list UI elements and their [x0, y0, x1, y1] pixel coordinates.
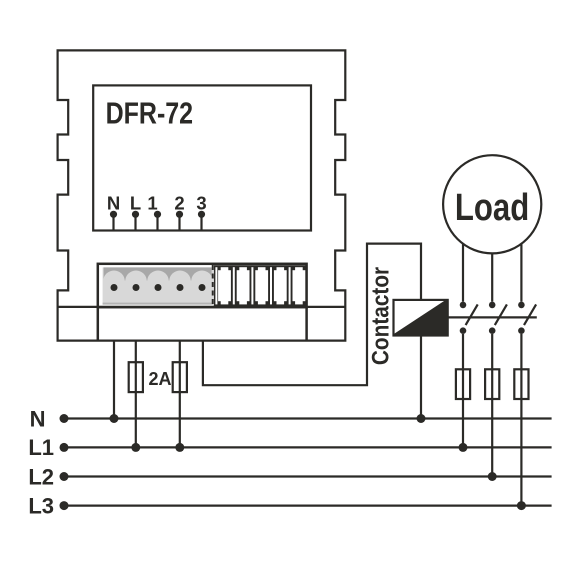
fuse F1 2A: [129, 362, 143, 392]
wire terminal N to bus N: [113, 341, 115, 419]
contact K1-1 blade: [466, 304, 478, 325]
bus L2 line: [64, 475, 552, 477]
svg-text:2A: 2A: [149, 369, 172, 389]
pin label 1: [147, 193, 157, 214]
contact K1-3 lower dot: [518, 327, 525, 334]
bus N terminal dot: [60, 414, 69, 423]
wire load phase A: [462, 210, 464, 302]
svg-text:L3: L3: [28, 493, 54, 518]
label Contactor: [366, 267, 394, 365]
pin 1 dot: [154, 211, 161, 218]
junction F4-L2: [488, 472, 497, 481]
wire load phase B: [491, 210, 493, 302]
net label L1: [28, 435, 54, 460]
pin label 3: [196, 193, 206, 214]
contact K1-2 lower dot: [489, 327, 496, 334]
svg-text:L2: L2: [28, 464, 54, 489]
svg-text:2: 2: [174, 193, 184, 214]
terminal block TB1 plug connector (gray): [103, 267, 213, 304]
relay U1 housing flange top edge: [58, 306, 346, 308]
socket slot 4: [274, 267, 287, 304]
svg-text:L: L: [130, 193, 141, 214]
net label N: [30, 406, 46, 431]
junction F2-L1: [175, 443, 184, 452]
contact K1-1 upper dot: [460, 302, 467, 309]
label Load: [455, 187, 529, 229]
label DFR-72: [106, 96, 194, 130]
svg-text:3: 3: [196, 193, 206, 214]
svg-text:Contactor: Contactor: [366, 267, 394, 365]
socket slot 5: [293, 267, 306, 304]
pin N dot: [110, 211, 117, 218]
junction F3-L1: [459, 443, 468, 452]
pin 3 dot: [198, 211, 205, 218]
wire terminal L to fuse F1 and bus L1: [135, 341, 137, 448]
value label 2A: [149, 369, 172, 389]
terminal TB1-3 dot: [155, 284, 162, 291]
wire contact K1-1 to bus L1: [462, 334, 464, 447]
wire pin 2 stub: [178, 214, 180, 230]
fuse F5: [514, 369, 528, 399]
bus L3 line: [64, 505, 552, 507]
svg-text:N: N: [30, 406, 46, 431]
terminal TB1-1 dot: [111, 284, 118, 291]
socket comb block: [214, 265, 307, 306]
pin 2 dot: [176, 211, 183, 218]
fuse F4: [485, 369, 499, 399]
net label L3: [28, 493, 54, 518]
svg-text:Load: Load: [455, 187, 529, 229]
load M1 circle: [443, 155, 541, 253]
junction F5-L3: [517, 501, 526, 510]
wire contact K1-2 to bus L2: [491, 334, 493, 477]
bus L3 terminal dot: [60, 501, 69, 510]
terminal TB1-4 dot: [177, 284, 184, 291]
wire coil to bus N: [420, 336, 422, 419]
relay U1 front panel rectangle: [93, 85, 311, 230]
socket slot 2: [237, 267, 250, 304]
bus N line: [64, 417, 552, 419]
wire load phase C: [520, 210, 522, 302]
pin label N: [107, 193, 120, 214]
socket comb slivers: [215, 267, 290, 304]
contact K1-2 upper dot: [489, 302, 496, 309]
contact K1-2 blade: [495, 304, 507, 325]
wire pin N stub: [112, 214, 114, 230]
contact K1-1 lower dot: [460, 327, 467, 334]
terminal TB1-2 dot: [133, 284, 140, 291]
socket slot 1: [218, 267, 231, 304]
contactor K1 coil: [394, 300, 448, 336]
junction F1-L1: [131, 443, 140, 452]
junction coil-N: [417, 414, 426, 423]
wire terminal 2 to fuse F2 and bus L1: [179, 341, 181, 448]
pin L dot: [132, 211, 139, 218]
contact K1-3 upper dot: [518, 302, 525, 309]
terminal block TB1 housing: [98, 264, 307, 341]
wire pin 3 stub: [200, 214, 202, 230]
junction wire-N: [110, 414, 119, 423]
socket slot 3: [255, 267, 268, 304]
pin label 2: [174, 193, 184, 214]
svg-text:N: N: [107, 193, 120, 214]
net label L2: [28, 464, 54, 489]
contact K1-3 blade: [524, 304, 536, 325]
svg-text:L1: L1: [28, 435, 54, 460]
wire pin L stub: [134, 214, 136, 230]
relay U1 DFR-72 outer housing outline: [58, 50, 346, 340]
contactor K1 linkage line: [448, 316, 537, 318]
terminal TB1-5 dot: [199, 284, 206, 291]
fuse F2 2A: [173, 362, 187, 392]
svg-text:DFR-72: DFR-72: [106, 96, 194, 130]
pin label L: [130, 193, 141, 214]
terminal block TB1 connector dashed edge: [212, 265, 214, 306]
fuse F3: [456, 369, 470, 399]
wire terminal 3 to contactor coil: [203, 244, 421, 386]
wire contact K1-3 to bus L3: [520, 334, 522, 506]
bus L2 terminal dot: [60, 472, 69, 481]
bus L1 terminal dot: [60, 443, 69, 452]
wire pin 1 stub: [156, 214, 158, 230]
bus L1 line: [64, 446, 552, 448]
svg-text:1: 1: [147, 193, 157, 214]
